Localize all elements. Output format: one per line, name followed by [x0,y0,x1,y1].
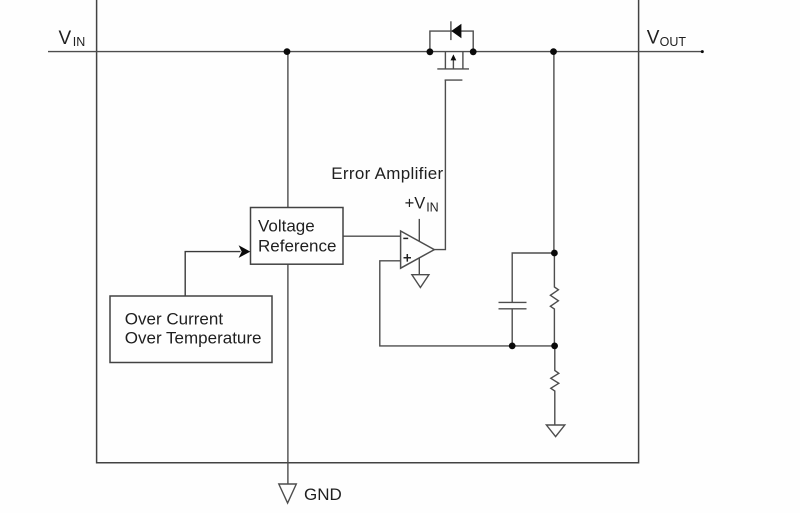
svg-text:GND: GND [304,485,342,504]
svg-text:OUT: OUT [660,35,687,49]
svg-text:Over Current: Over Current [125,309,224,328]
svg-text:Over Temperature: Over Temperature [125,329,262,348]
svg-text:IN: IN [426,201,439,215]
svg-text:+V: +V [405,194,426,212]
svg-text:V: V [647,28,660,49]
svg-text:Error Amplifier: Error Amplifier [331,164,443,183]
svg-text:Voltage: Voltage [258,217,315,236]
svg-text:V: V [59,28,72,49]
svg-text:IN: IN [73,35,86,49]
svg-text:Reference: Reference [258,236,336,255]
